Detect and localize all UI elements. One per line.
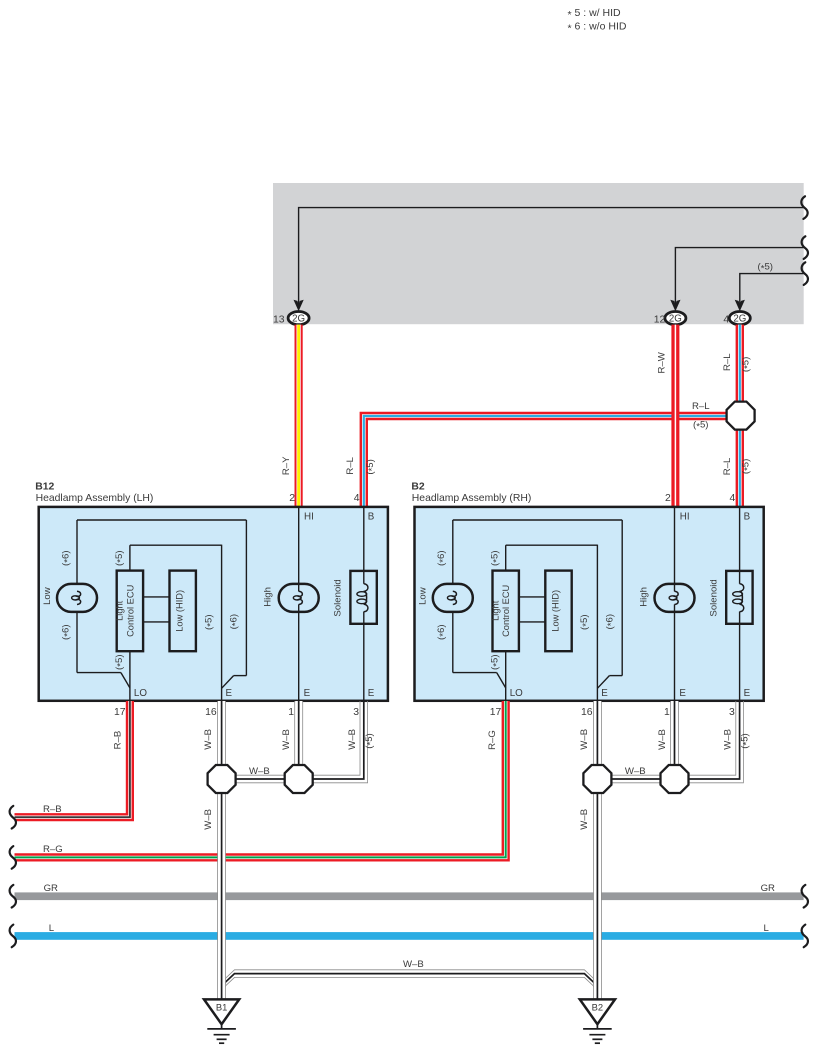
wire LO diagonal LH — [121, 673, 130, 688]
svg-text:GR: GR — [761, 883, 775, 894]
junction connector R-L — [727, 402, 755, 430]
svg-text:1: 1 — [664, 707, 670, 718]
ECU-HID link upper RH — [519, 596, 545, 598]
svg-text:B2: B2 — [592, 1002, 603, 1013]
wire W-B pin16 LH — [218, 701, 225, 765]
svg-text:3: 3 — [353, 707, 359, 718]
junction W-B RH left — [583, 765, 611, 793]
wire LO horizontal LH — [77, 672, 121, 674]
svg-text:2G: 2G — [669, 314, 682, 325]
svg-text:(*5): (*5) — [203, 614, 216, 629]
break symbol pin4 wire — [802, 262, 808, 285]
connector 2G pin 4 — [729, 312, 750, 325]
svg-text:Low: Low — [418, 587, 429, 605]
wire E feed vertical RH — [621, 520, 623, 676]
svg-text:W–B: W–B — [723, 729, 734, 750]
svg-text:16: 16 — [581, 707, 593, 718]
arrow into 2G pin 13 — [294, 300, 304, 312]
wire HI vertical upper LH — [298, 507, 300, 592]
svg-text:(*6): (*6) — [60, 550, 73, 565]
low HID box RH — [545, 571, 571, 652]
svg-text:R–L: R–L — [722, 353, 733, 371]
wire ECU-E (*5) run RH — [506, 544, 598, 546]
svg-text:HI: HI — [680, 511, 690, 522]
svg-text:(*5): (*5) — [490, 654, 503, 669]
wire B vertical lower RH — [739, 612, 741, 701]
wire low bulb bottom RH — [452, 612, 454, 673]
wire W-B pin3 RH — [687, 701, 736, 775]
svg-text:Headlamp Assembly (LH): Headlamp Assembly (LH) — [36, 493, 154, 504]
svg-text:2G: 2G — [733, 314, 746, 325]
svg-text:(*5): (*5) — [114, 550, 127, 565]
wire low bulb top LH — [76, 520, 78, 584]
svg-text:R–L: R–L — [345, 456, 356, 474]
wire ECU top RH — [505, 545, 507, 570]
wire R-L lower — [736, 429, 744, 507]
wire R-L upper — [736, 325, 744, 402]
svg-text:R–W: R–W — [657, 351, 668, 373]
svg-text:* 5 : w/ HID: * 5 : w/ HID — [568, 7, 622, 21]
svg-text:B1: B1 — [216, 1002, 227, 1013]
svg-text:GR: GR — [44, 883, 58, 894]
wire to 2G pin 13 — [299, 208, 804, 306]
svg-text:R–Y: R–Y — [281, 456, 292, 475]
svg-text:L: L — [764, 923, 770, 934]
break symbol R-B — [10, 806, 16, 829]
svg-text:R–G: R–G — [487, 730, 498, 750]
break symbol pin12 wire — [802, 236, 808, 259]
wire E feed vertical LH — [245, 520, 247, 676]
light control ECU box LH — [117, 571, 143, 652]
solenoid coil LH — [364, 584, 368, 612]
svg-text:Low (HID): Low (HID) — [175, 590, 185, 632]
svg-text:Control ECU: Control ECU — [501, 585, 511, 637]
svg-text:LO: LO — [134, 688, 147, 699]
wire W-B pin1 LH — [295, 701, 302, 765]
wire bulb-E top run RH — [453, 519, 622, 521]
svg-text:LO: LO — [510, 688, 523, 699]
solenoid box LH — [350, 571, 376, 624]
wire W-B between junctions LH — [228, 774, 292, 776]
svg-text:13: 13 — [273, 314, 285, 325]
svg-text:(*6): (*6) — [436, 550, 449, 565]
wire E feed diagonal RH — [597, 676, 609, 689]
wire LO vertical RH — [505, 651, 507, 701]
connector 2G pin 12 — [665, 312, 686, 325]
svg-text:W–B: W–B — [347, 729, 358, 750]
wire W-B bottom run — [222, 970, 598, 982]
svg-text:Headlamp Assembly (RH): Headlamp Assembly (RH) — [412, 493, 532, 504]
svg-text:16: 16 — [205, 707, 217, 718]
svg-text:* 6 : w/o HID: * 6 : w/o HID — [568, 21, 627, 35]
break symbol pin13 wire — [801, 196, 807, 219]
svg-text:1: 1 — [288, 707, 294, 718]
svg-text:2G: 2G — [292, 314, 305, 325]
wire ECU top LH — [129, 545, 131, 570]
wire E feed horizontal RH — [609, 675, 622, 677]
svg-text:Light: Light — [115, 600, 125, 621]
svg-text:W–B: W–B — [579, 729, 590, 750]
wire ECU-E (*5) run LH — [130, 544, 222, 546]
svg-text:(*5): (*5) — [365, 459, 378, 474]
svg-text:High: High — [263, 587, 274, 607]
svg-text:W–B: W–B — [579, 809, 590, 830]
svg-text:W–B: W–B — [203, 809, 214, 830]
ECU-HID link upper LH — [143, 596, 169, 598]
svg-text:B12: B12 — [35, 482, 54, 493]
wire GR bus — [15, 892, 804, 900]
svg-text:4: 4 — [723, 314, 729, 325]
svg-text:12: 12 — [654, 314, 666, 325]
svg-text:(*5): (*5) — [693, 420, 708, 433]
junction W-B LH left — [208, 765, 236, 793]
svg-text:Control ECU: Control ECU — [125, 585, 135, 637]
wire B vertical upper LH — [363, 507, 365, 584]
svg-text:R–L: R–L — [692, 401, 710, 412]
svg-text:(*6): (*6) — [60, 624, 73, 639]
wire low bulb top RH — [452, 520, 454, 584]
break symbol R-G — [10, 846, 16, 869]
break L left — [10, 925, 16, 948]
break L right — [802, 925, 808, 948]
wire LO vertical LH — [129, 651, 131, 701]
wire E16 vertical RH — [596, 545, 598, 701]
headlamp LH box border — [39, 507, 388, 701]
wire W-B to ground B2 — [594, 793, 601, 1000]
svg-text:(*5): (*5) — [579, 614, 592, 629]
svg-text:(*5): (*5) — [114, 654, 127, 669]
wire E16 vertical LH — [221, 545, 223, 701]
svg-text:(*5): (*5) — [364, 733, 377, 748]
svg-text:W–B: W–B — [625, 766, 646, 777]
wire B vertical lower LH — [363, 612, 365, 701]
svg-text:4: 4 — [354, 493, 360, 504]
low HID box LH — [170, 571, 196, 652]
svg-text:R–B: R–B — [113, 731, 124, 750]
wire B vertical upper RH — [739, 507, 741, 584]
svg-text:Light: Light — [490, 600, 500, 621]
svg-text:2: 2 — [289, 493, 295, 504]
arrow into 2G pin 12 — [670, 300, 680, 312]
break GR right — [802, 885, 808, 908]
low beam bulb LH — [57, 584, 97, 612]
svg-text:3: 3 — [729, 707, 735, 718]
wire HI vertical upper RH — [674, 507, 676, 592]
wire low bulb bottom LH — [76, 612, 78, 673]
high beam bulb LH — [279, 584, 319, 612]
wire W-B between junctions RH — [604, 774, 668, 776]
svg-text:(*5): (*5) — [741, 459, 754, 474]
low beam bulb RH — [433, 584, 473, 612]
ground B1 — [204, 999, 239, 1024]
wire E feed diagonal LH — [222, 676, 234, 689]
solenoid box RH — [726, 571, 752, 624]
wire R-B — [15, 701, 130, 817]
svg-text:HI: HI — [304, 511, 314, 522]
wire W-B pin3 LH — [311, 701, 360, 775]
wire R-W — [671, 325, 679, 508]
light control ECU box RH — [493, 571, 519, 652]
ECU-HID link lower LH — [143, 621, 169, 623]
svg-text:R–L: R–L — [722, 457, 733, 475]
ECU-HID link lower RH — [519, 621, 545, 623]
svg-text:Solenoid: Solenoid — [333, 579, 344, 616]
harness box — [273, 183, 804, 324]
connector 2G pin 13 — [288, 312, 309, 325]
svg-text:B2: B2 — [411, 482, 425, 493]
headlamp assembly LH box fill — [39, 507, 388, 701]
headlamp assembly RH box fill — [415, 507, 764, 701]
svg-text:W–B: W–B — [657, 729, 668, 750]
svg-text:E: E — [601, 688, 608, 699]
svg-text:High: High — [639, 587, 650, 607]
svg-text:R–G: R–G — [43, 844, 63, 855]
svg-text:17: 17 — [114, 707, 126, 718]
wire R-G — [15, 701, 506, 857]
svg-text:(*6): (*6) — [436, 624, 449, 639]
svg-text:(*5): (*5) — [490, 550, 503, 565]
wire to 2G pin 12 — [675, 248, 803, 306]
svg-text:17: 17 — [490, 707, 502, 718]
svg-text:W–B: W–B — [203, 729, 214, 750]
wire HI vertical lower LH — [298, 604, 300, 701]
wire W-B pin1 RH — [671, 701, 678, 765]
wire L bus — [15, 932, 804, 940]
high beam bulb RH — [655, 584, 695, 612]
svg-text:E: E — [679, 688, 686, 699]
wire E feed horizontal LH — [234, 675, 247, 677]
junction W-B LH right — [285, 765, 313, 793]
ground B2 — [580, 999, 615, 1024]
wire to 2G pin 4 — [740, 274, 804, 306]
svg-text:2: 2 — [665, 493, 671, 504]
svg-text:L: L — [49, 923, 55, 934]
wire LO horizontal RH — [453, 672, 497, 674]
junction W-B RH right — [661, 765, 689, 793]
svg-text:Low: Low — [42, 587, 53, 605]
svg-text:W–B: W–B — [403, 959, 424, 970]
wire W-B to ground B1 — [218, 793, 225, 1000]
svg-text:E: E — [368, 688, 375, 699]
arrow into 2G pin 4 — [735, 300, 745, 312]
svg-text:Solenoid: Solenoid — [708, 579, 719, 616]
solenoid coil RH — [740, 584, 744, 612]
svg-text:(*6): (*6) — [604, 614, 617, 629]
svg-text:E: E — [744, 688, 751, 699]
svg-text:B: B — [368, 511, 375, 522]
wire LO diagonal RH — [497, 673, 506, 688]
wire HI vertical lower RH — [674, 604, 676, 701]
svg-text:W–B: W–B — [249, 766, 270, 777]
svg-text:(*5): (*5) — [740, 733, 753, 748]
wire bulb-E top run LH — [77, 519, 246, 521]
wire R-L horizontal — [364, 416, 727, 508]
wire W-B pin16 RH — [594, 701, 601, 765]
wire R-Y — [295, 325, 303, 508]
svg-text:W–B: W–B — [281, 729, 292, 750]
svg-text:4: 4 — [730, 493, 736, 504]
svg-text:(*5): (*5) — [741, 357, 754, 372]
svg-text:E: E — [226, 688, 233, 699]
svg-text:Low (HID): Low (HID) — [551, 590, 561, 632]
svg-text:R–B: R–B — [43, 804, 62, 815]
svg-text:(*6): (*6) — [229, 614, 242, 629]
break GR left — [10, 885, 16, 908]
svg-text:E: E — [304, 688, 311, 699]
headlamp RH box border — [415, 507, 764, 701]
svg-text:B: B — [744, 511, 751, 522]
svg-text:(*5): (*5) — [758, 262, 773, 275]
